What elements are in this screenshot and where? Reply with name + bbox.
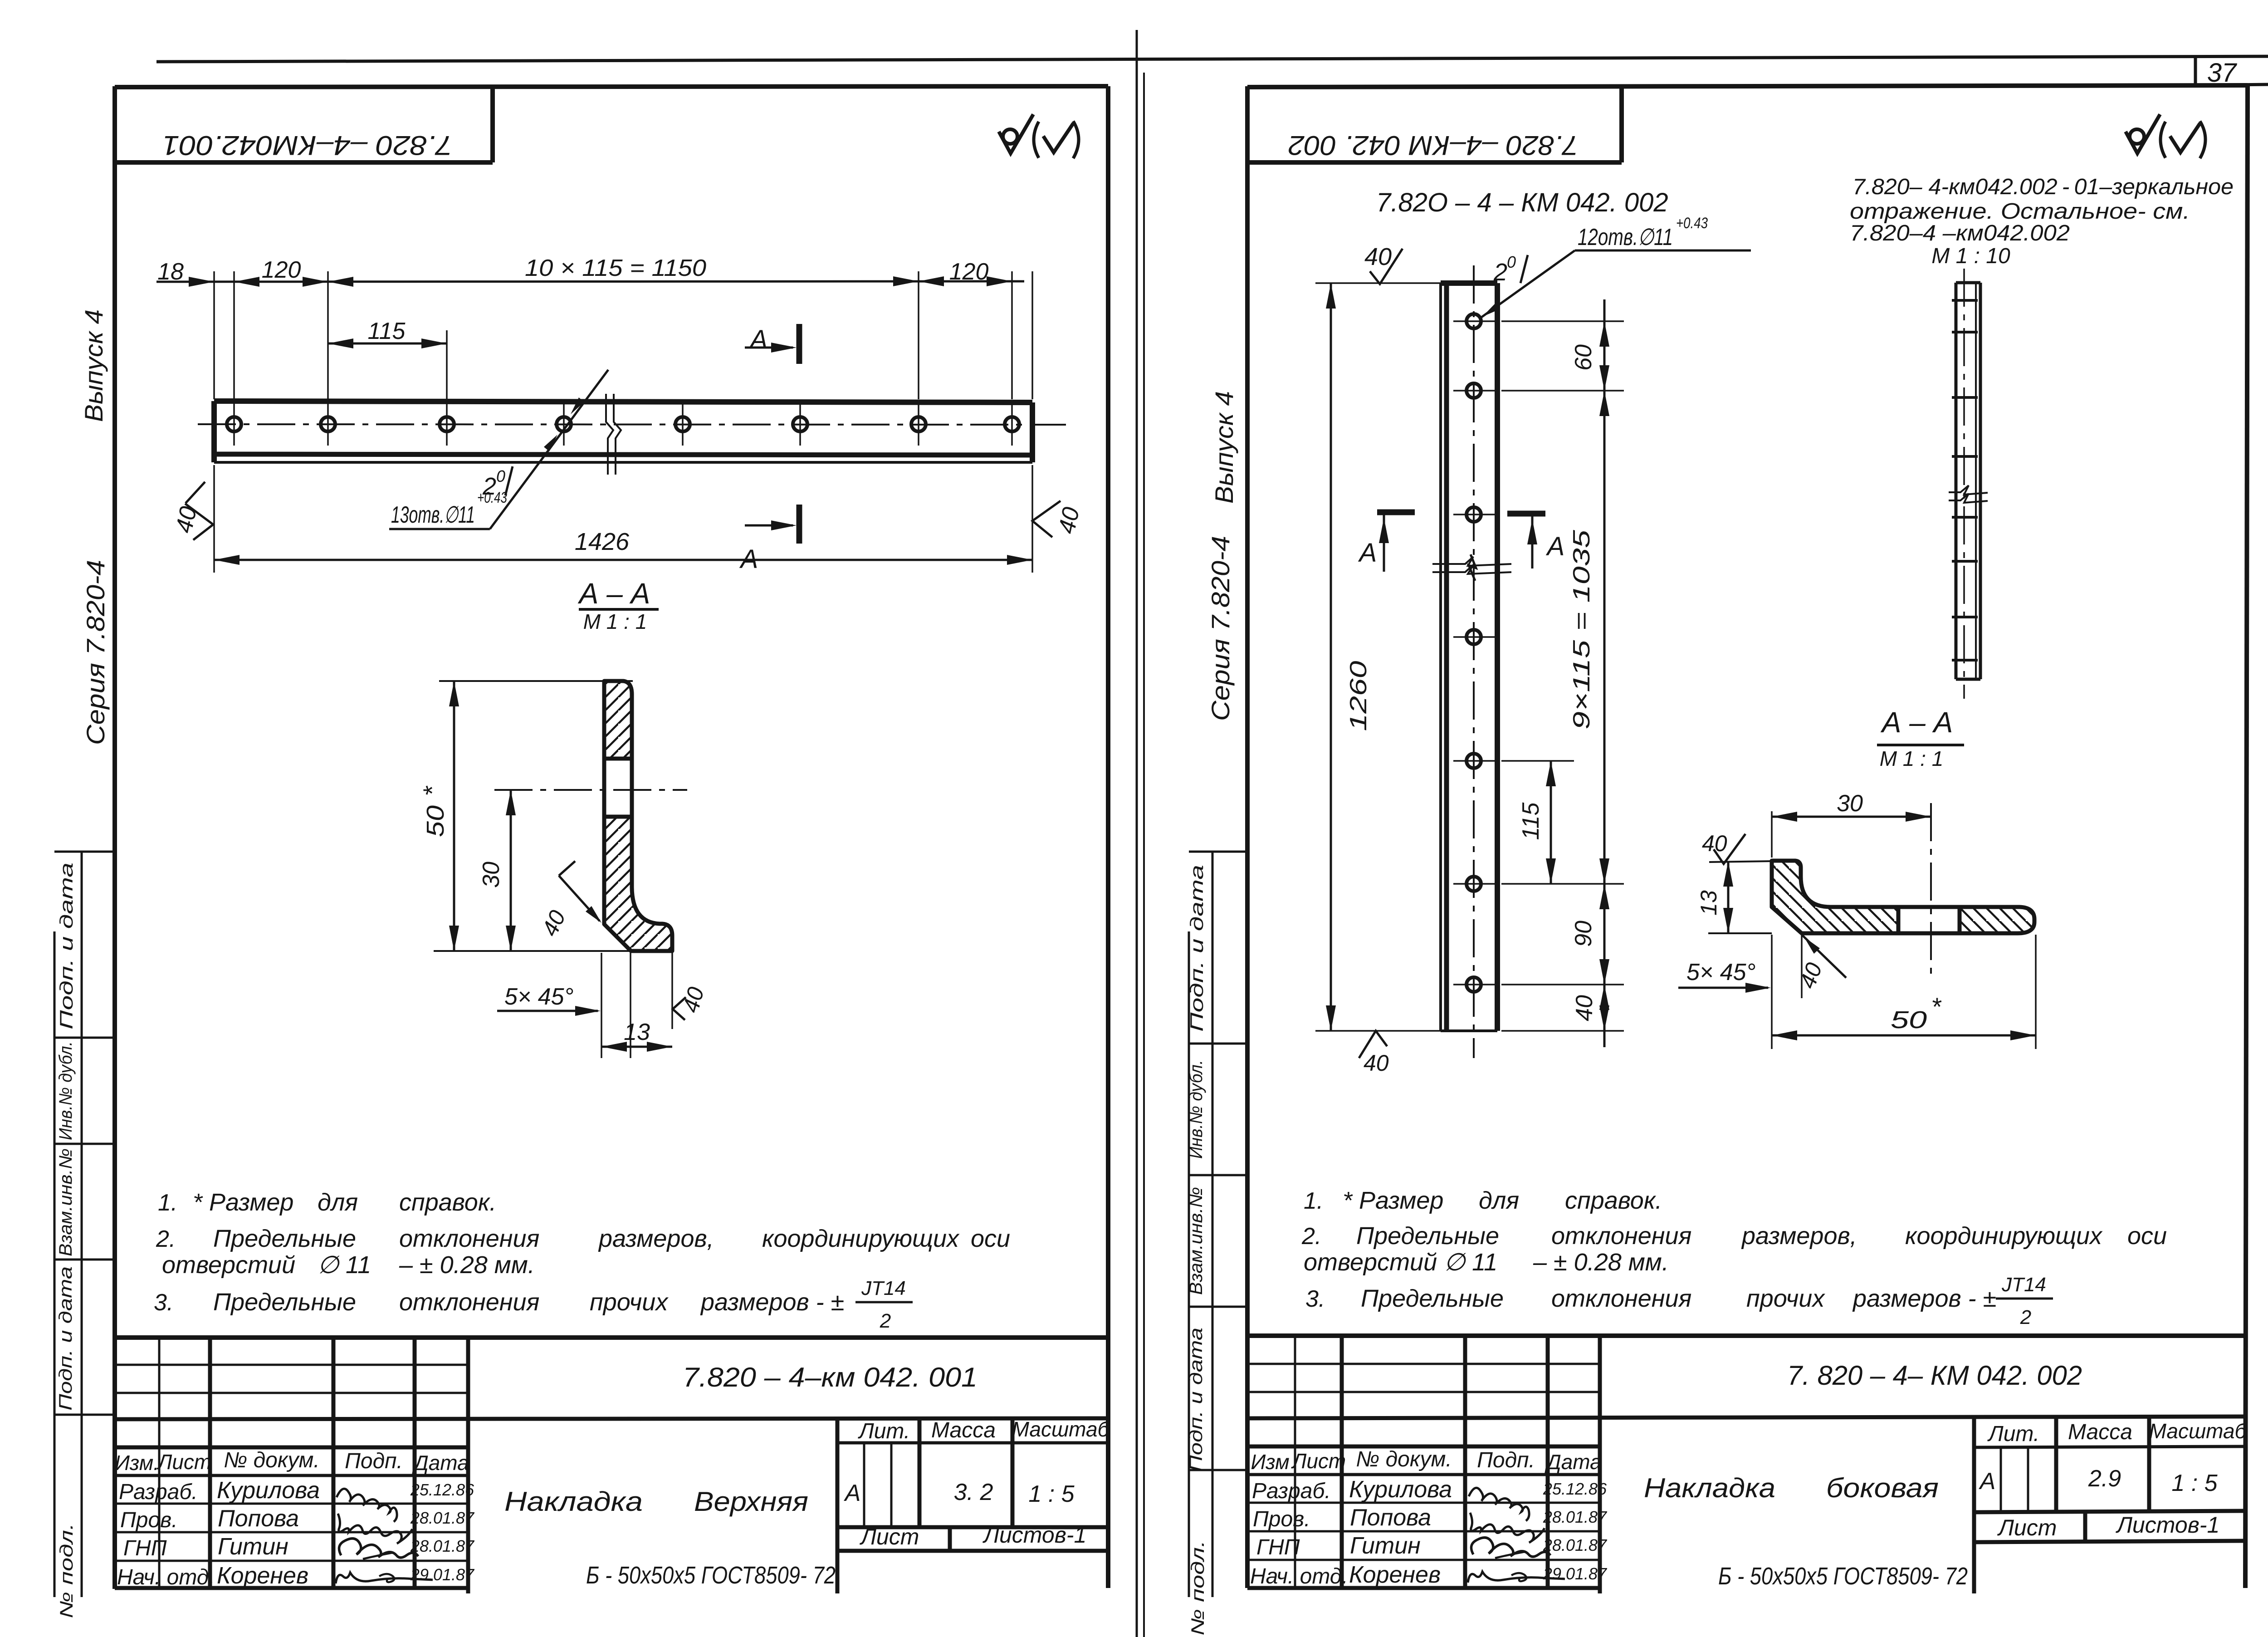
section2 profile outline (1772, 861, 2034, 933)
sheet2 frame top edge (1247, 85, 2248, 87)
svg-text:Попова: Попова (1350, 1505, 1431, 1531)
extension lines above bar (213, 271, 215, 399)
svg-text:Подп. и дата: Подп. и дата (56, 1266, 76, 1411)
svg-text:Листов-1: Листов-1 (2116, 1512, 2220, 1538)
svg-text:7.820–4 –км042.002: 7.820–4 –км042.002 (1850, 221, 2070, 245)
svg-text:Б - 50х50х5 ГОСТ8509- 72: Б - 50х50х5 ГОСТ8509- 72 (586, 1562, 836, 1589)
svg-text:Листов-1: Листов-1 (982, 1522, 1087, 1548)
svg-text:Взам.инв.№: Взам.инв.№ (56, 1148, 76, 1256)
svg-text:Изм.: Изм. (115, 1451, 159, 1475)
svg-text:30: 30 (1837, 790, 1863, 817)
svg-text:28.01.87: 28.01.87 (410, 1509, 475, 1527)
svg-text:Нач. отд.: Нач. отд. (117, 1565, 215, 1589)
sheet2 inverted doc-number box (1619, 87, 1624, 162)
svg-text:Дата: Дата (411, 1451, 469, 1475)
sheet1 frame top edge (115, 86, 1108, 87)
section hole lower edge (604, 815, 632, 819)
section A-A hatch upper leg (604, 681, 632, 759)
svg-text:координирующих: координирующих (762, 1225, 960, 1252)
sheet2 frame right edge (2245, 85, 2248, 1588)
weld arrow 40 lower section2 (1802, 935, 1846, 978)
margin column outer line (54, 931, 56, 1597)
svg-text:50: 50 (1891, 1006, 1927, 1034)
svg-text:Предельные: Предельные (213, 1225, 356, 1252)
svg-text:13: 13 (1696, 890, 1721, 916)
svg-text:оси: оси (2127, 1222, 2167, 1250)
svg-text:90: 90 (1570, 921, 1597, 947)
svg-text:Попова: Попова (218, 1505, 299, 1532)
sheet1 inverted doc-number box (490, 88, 495, 162)
hole H6 plan (793, 417, 807, 431)
svg-text:13: 13 (624, 1019, 650, 1045)
svg-text:0: 0 (1507, 253, 1516, 271)
section hole centerline (494, 789, 687, 791)
svg-text:Коренев: Коренев (1349, 1562, 1441, 1588)
svg-text:размеров - ±: размеров - ± (700, 1289, 844, 1316)
margin column top line (54, 851, 115, 853)
signature kurilova (1469, 1488, 1529, 1521)
title block2 top line (1247, 1333, 2248, 1338)
svg-text:40: 40 (1364, 1050, 1389, 1076)
svg-text:0: 0 (496, 467, 505, 485)
svg-text:Пров.: Пров. (1253, 1507, 1310, 1531)
hole V4 plan (1466, 630, 1481, 644)
svg-text:М 1 : 10: М 1 : 10 (1931, 244, 2010, 268)
hole V3 plan (1466, 507, 1481, 522)
sheet1 frame right edge (1106, 86, 1110, 1588)
page top edge line (156, 56, 2268, 62)
lit2 lines (1974, 1446, 2248, 1447)
svg-text:отклонения: отклонения (1551, 1222, 1691, 1250)
break lines in bar plan (606, 394, 613, 475)
svg-text:Курилова: Курилова (217, 1477, 320, 1504)
svg-text:40: 40 (1364, 243, 1392, 270)
section2 hatch left part (1772, 861, 1898, 933)
signature korenev (1468, 1572, 1565, 1583)
svg-text:Предельные: Предельные (1361, 1285, 1504, 1312)
svg-text:Взам.инв.№: Взам.инв.№ (1186, 1187, 1206, 1295)
svg-text:– ± 0.28 мм.: – ± 0.28 мм. (399, 1251, 535, 1279)
section2 extension lines down (1771, 935, 1773, 1049)
dimension 13 of section2 (1727, 861, 1730, 933)
page fold line between sheets (right) (1143, 73, 1145, 1637)
svg-text:Гитин: Гитин (1350, 1533, 1421, 1559)
edge view break (1949, 485, 1988, 495)
title block2 full line (1247, 1416, 2248, 1418)
svg-text:+0.43: +0.43 (477, 489, 507, 506)
svg-text:*: * (1931, 992, 1942, 1021)
signature gitin (339, 1539, 419, 1558)
svg-text:1426: 1426 (575, 528, 630, 555)
svg-text:Лит.: Лит. (858, 1419, 910, 1443)
weld mark 40 at section toe (673, 997, 686, 1020)
section cut mark A left (1377, 510, 1415, 515)
section cut mark A right (1507, 511, 1545, 517)
svg-text:28.01.87: 28.01.87 (410, 1537, 475, 1555)
title block2 thin rows (1247, 1363, 1600, 1365)
dimension 50* of section2 (1772, 1034, 2036, 1037)
svg-text:отклонения: отклонения (399, 1289, 539, 1316)
hole V2 plan (1466, 383, 1481, 398)
svg-text:ГНП: ГНП (123, 1536, 167, 1560)
dimension 115 between holes (328, 343, 447, 345)
section top extension line (439, 680, 633, 682)
lit massa masshtab lines (837, 1441, 1108, 1445)
svg-text:3.: 3. (1305, 1286, 1325, 1312)
svg-text:Лист: Лист (1291, 1449, 1346, 1473)
svg-text:1260: 1260 (1345, 661, 1372, 731)
svg-text:* Размер: * Размер (193, 1189, 293, 1216)
svg-text:25.12.86: 25.12.86 (1543, 1480, 1607, 1498)
svg-text:Серия 7.820-4: Серия 7.820-4 (1206, 536, 1235, 721)
svg-text:оси: оси (971, 1225, 1010, 1252)
svg-text:Б - 50х50х5 ГОСТ8509- 72: Б - 50х50х5 ГОСТ8509- 72 (1718, 1563, 1968, 1590)
section cut mark A upper (797, 324, 802, 364)
weld mark 40 bottom of bar2 (1359, 1031, 1387, 1058)
hole V6 plan (1466, 877, 1481, 891)
svg-text:Дата: Дата (1544, 1450, 1601, 1474)
section A-A hatch lower part (604, 817, 672, 951)
section bottom extension line (434, 950, 631, 952)
svg-text:Разраб.: Разраб. (119, 1480, 198, 1504)
svg-text:Подп. и дата: Подп. и дата (1186, 1328, 1206, 1472)
hole V1 plan (1466, 314, 1481, 328)
hole H2 plan (321, 417, 335, 431)
svg-text:М 1 : 1: М 1 : 1 (583, 610, 647, 633)
svg-text:Лист: Лист (156, 1450, 211, 1474)
svg-text:120: 120 (949, 259, 989, 285)
dimension 13 of section foot (601, 1046, 672, 1048)
svg-text:Накладка: Накладка (504, 1486, 643, 1517)
signature kurilova (337, 1489, 397, 1522)
svg-text:40: 40 (171, 504, 202, 535)
svg-text:25.12.86: 25.12.86 (410, 1480, 474, 1499)
dimension 50* of section (453, 681, 455, 951)
title block full width line (115, 1418, 1108, 1419)
signature popova (1470, 1513, 1545, 1543)
bar plan inner flange line (214, 454, 1032, 455)
svg-text:отклонения: отклонения (399, 1225, 539, 1252)
svg-text:Подп.: Подп. (1477, 1448, 1535, 1472)
svg-text:2.9: 2.9 (2088, 1465, 2121, 1492)
svg-text:№ докум.: № докум. (224, 1448, 319, 1472)
right chained dimension line (1603, 299, 1606, 1047)
svg-text:120: 120 (262, 257, 301, 283)
sheet2 surface roughness symbol (2130, 129, 2144, 144)
svg-text:18: 18 (157, 259, 184, 285)
svg-text:Разраб.: Разраб. (1252, 1479, 1331, 1503)
title block top line (115, 1335, 1108, 1340)
hole H8 plan (1005, 417, 1019, 431)
svg-text:40: 40 (1571, 995, 1598, 1021)
svg-text:А: А (739, 544, 758, 574)
section2 hole left wall (1897, 907, 1901, 933)
svg-text:Лист: Лист (1997, 1515, 2057, 1540)
svg-text:* Размер: * Размер (1343, 1187, 1443, 1214)
svg-text:А – А: А – А (577, 577, 650, 610)
dimension 115 right sheet (1550, 761, 1552, 884)
svg-text:9×115 = 1035: 9×115 = 1035 (1569, 529, 1595, 730)
break lines in bar2 (1432, 557, 1511, 566)
svg-text:Подп. и дата: Подп. и дата (57, 863, 77, 1029)
title block vertical lines left part (158, 1338, 161, 1588)
svg-text:28.01.87: 28.01.87 (1543, 1536, 1608, 1554)
section2 hole right wall (1958, 907, 1962, 933)
svg-text:№ подл.: № подл. (1188, 1540, 1208, 1636)
svg-text:5× 45°: 5× 45° (504, 984, 573, 1010)
edge view bar outline (1955, 283, 1958, 679)
edge view centerline (1963, 269, 1965, 699)
bar2 extension lines right (1501, 320, 1624, 322)
hole V5 plan (1466, 754, 1481, 768)
svg-text:А: А (844, 1480, 861, 1506)
edge view hole ticks (1952, 299, 1978, 302)
section2 lower extension line (1708, 932, 1772, 934)
svg-text:3.: 3. (154, 1289, 173, 1316)
title block2 verticals (1294, 1336, 1296, 1588)
svg-text:2: 2 (1493, 259, 1507, 286)
svg-text:Подп. и дата: Подп. и дата (1187, 865, 1207, 1032)
sheet1 frame left edge (112, 86, 117, 1589)
svg-text:7. 820 – 4– КМ 042. 002: 7. 820 – 4– КМ 042. 002 (1787, 1360, 2082, 1391)
margin2 outer line (1188, 931, 1190, 1597)
svg-text:Масштаб: Масштаб (1012, 1417, 1110, 1441)
svg-text:Накладка: Накладка (1644, 1473, 1775, 1503)
svg-text:размеров,: размеров, (1741, 1222, 1857, 1250)
margin2 top line (1189, 851, 1247, 853)
dimension 30 of section (510, 790, 512, 951)
dimension 1260 (1330, 283, 1332, 1031)
bar plan hole centerline (198, 424, 1066, 425)
svg-text:координирующих: координирующих (1905, 1222, 2103, 1250)
section cut mark A lower (797, 505, 802, 544)
svg-text:JT14: JT14 (861, 1277, 906, 1299)
bar2 plan outline (1439, 283, 1442, 1031)
svg-text:боковая: боковая (1826, 1473, 1939, 1503)
svg-text:1 : 5: 1 : 5 (2171, 1470, 2218, 1496)
svg-text:Нач. отд.: Нач. отд. (1250, 1564, 1348, 1588)
section lower extension lines (601, 953, 602, 1058)
svg-text:115: 115 (1518, 802, 1544, 840)
bar2 extension lines left (1315, 282, 1441, 284)
section2 hole centerline (1930, 803, 1932, 981)
svg-text:29.01.87: 29.01.87 (1543, 1564, 1608, 1583)
signature popova (338, 1514, 412, 1544)
svg-text:7.820 – 4–км 042. 001: 7.820 – 4–км 042. 001 (683, 1362, 978, 1392)
svg-text:– ± 0.28 мм.: – ± 0.28 мм. (1533, 1249, 1669, 1276)
svg-text:Коренев: Коренев (217, 1563, 308, 1589)
svg-text:справок.: справок. (399, 1189, 496, 1216)
svg-text:прочих: прочих (590, 1289, 669, 1316)
svg-text:ГНП: ГНП (1256, 1535, 1300, 1559)
svg-text:отражение. Остальное- см.: отражение. Остальное- см. (1850, 199, 2190, 224)
title block thin row lines (115, 1364, 468, 1366)
svg-text:115: 115 (368, 318, 406, 344)
svg-text:5× 45°: 5× 45° (1686, 959, 1755, 985)
svg-text:размеров - ±: размеров - ± (1852, 1285, 1996, 1312)
hole H3 plan (440, 417, 454, 431)
sheet2 frame left edge (1245, 86, 1250, 1588)
svg-text:А: А (1358, 538, 1377, 568)
title block vertical line before lit section (836, 1419, 840, 1593)
svg-text:30: 30 (478, 862, 504, 888)
svg-text:7.820 –4–КМ042.001: 7.820 –4–КМ042.001 (162, 130, 453, 161)
svg-text:Масса: Масса (2068, 1420, 2132, 1444)
section A-A profile outline (604, 681, 672, 951)
svg-text:2: 2 (2020, 1306, 2031, 1328)
extension lines below bar for 1426 (213, 465, 215, 573)
title block2 rows left part (1247, 1445, 1600, 1449)
svg-text:А – А: А – А (1880, 706, 1953, 739)
svg-text:2: 2 (880, 1310, 891, 1332)
svg-text:М 1 : 1: М 1 : 1 (1880, 747, 1944, 770)
svg-text:2.: 2. (1301, 1223, 1321, 1250)
section2 hatch right part (1960, 907, 2034, 933)
svg-text:Пров.: Пров. (120, 1508, 178, 1532)
svg-text:Лит.: Лит. (1987, 1422, 2039, 1446)
svg-text:№ подл.: № подл. (57, 1523, 77, 1618)
hole H4 plan (557, 417, 571, 431)
svg-text:Инв.№ дубл.: Инв.№ дубл. (56, 1041, 76, 1140)
svg-text:А: А (1979, 1468, 1996, 1495)
svg-text:для: для (318, 1189, 358, 1216)
svg-text:А: А (749, 325, 768, 354)
hole H5 plan (675, 417, 690, 431)
hole H7 plan (911, 417, 926, 431)
margin2 dividers (1189, 1043, 1247, 1045)
svg-text:№ докум.: № докум. (1356, 1447, 1452, 1471)
dimension line 18-120-10x115-120 (156, 281, 1024, 282)
section2 upper extension line (1709, 861, 1772, 862)
bar2 hole centerline (1473, 265, 1475, 1058)
svg-text:Гитин: Гитин (218, 1534, 288, 1560)
svg-text:справок.: справок. (1565, 1187, 1662, 1214)
dimension 30 of section2 (1771, 811, 1773, 858)
svg-text:+0.43: +0.43 (1676, 215, 1708, 232)
svg-text:JT14: JT14 (2001, 1274, 2046, 1296)
svg-text:Масса: Масса (931, 1418, 996, 1442)
svg-text:Предельные: Предельные (1356, 1222, 1499, 1250)
svg-text:1.: 1. (158, 1190, 177, 1216)
svg-text:Верхняя: Верхняя (694, 1486, 808, 1517)
svg-text:50: 50 (422, 805, 449, 837)
svg-text:28.01.87: 28.01.87 (1543, 1508, 1608, 1526)
svg-text:7.820– 4-км042.002 - 01–зеркал: 7.820– 4-км042.002 - 01–зеркальное (1853, 175, 2234, 199)
hole H1 plan (227, 417, 241, 431)
svg-text:13отв.∅11: 13отв.∅11 (391, 502, 475, 528)
svg-text:Курилова: Курилова (1349, 1476, 1452, 1503)
svg-text:Инв.№ дубл.: Инв.№ дубл. (1186, 1060, 1206, 1159)
sheet1 surface roughness symbol (1003, 129, 1017, 144)
svg-text:Выпуск 4: Выпуск 4 (1210, 391, 1238, 504)
svg-text:∅ 11: ∅ 11 (318, 1251, 371, 1279)
svg-text:отверстий: отверстий (162, 1251, 295, 1279)
svg-text:29.01.87: 29.01.87 (410, 1565, 475, 1584)
signature gitin (1471, 1538, 1551, 1557)
section hole upper edge (604, 757, 632, 761)
svg-text:Серия 7.820-4: Серия 7.820-4 (81, 560, 110, 745)
svg-text:1 : 5: 1 : 5 (1028, 1481, 1075, 1507)
svg-text:7.82O – 4 – КМ 042. 002: 7.82O – 4 – КМ 042. 002 (1376, 188, 1668, 217)
svg-text:размеров,: размеров, (598, 1225, 714, 1252)
margin column inner line (81, 852, 83, 1597)
svg-text:40: 40 (1054, 505, 1085, 536)
svg-text:отклонения: отклонения (1551, 1285, 1691, 1312)
svg-text:прочих: прочих (1746, 1285, 1825, 1312)
weld mark 40 at right end of bar (1032, 501, 1061, 537)
svg-text:2.: 2. (156, 1226, 176, 1252)
svg-text:3. 2: 3. 2 (954, 1479, 993, 1505)
svg-text:7.820 –4–КМ 042. 002: 7.820 –4–КМ 042. 002 (1288, 130, 1579, 161)
weld arrow 40 on section chamfer (559, 876, 600, 921)
svg-text:Лист: Лист (860, 1524, 919, 1549)
margin cell dividers (54, 1037, 115, 1039)
svg-text:Масштаб: Масштаб (2149, 1419, 2248, 1443)
page number cell line (2194, 58, 2197, 85)
svg-text:Изм: Изм (1251, 1450, 1289, 1474)
svg-text:отверстий ∅ 11: отверстий ∅ 11 (1304, 1249, 1497, 1276)
svg-text:для: для (1479, 1187, 1519, 1214)
svg-text:А: А (1546, 532, 1565, 561)
svg-text:60: 60 (1570, 344, 1597, 371)
bar plan view outline (214, 401, 1032, 402)
page fold line between sheets (left) (1136, 30, 1138, 1637)
svg-text:10 × 115 = 1150: 10 × 115 = 1150 (525, 255, 706, 281)
signature korenev (336, 1573, 433, 1583)
dimension 1426 overall (214, 559, 1032, 561)
margin2 inner line (1212, 852, 1214, 1597)
svg-text:12отв.∅11: 12отв.∅11 (1578, 224, 1673, 250)
svg-text:1.: 1. (1304, 1188, 1323, 1214)
svg-text:Подп.: Подп. (345, 1449, 403, 1473)
svg-text:*: * (418, 785, 446, 796)
title block row lines left part (115, 1446, 468, 1450)
svg-text:Предельные: Предельные (213, 1289, 356, 1316)
svg-text:Выпуск 4: Выпуск 4 (79, 309, 108, 422)
hole V7 plan (1466, 977, 1481, 992)
